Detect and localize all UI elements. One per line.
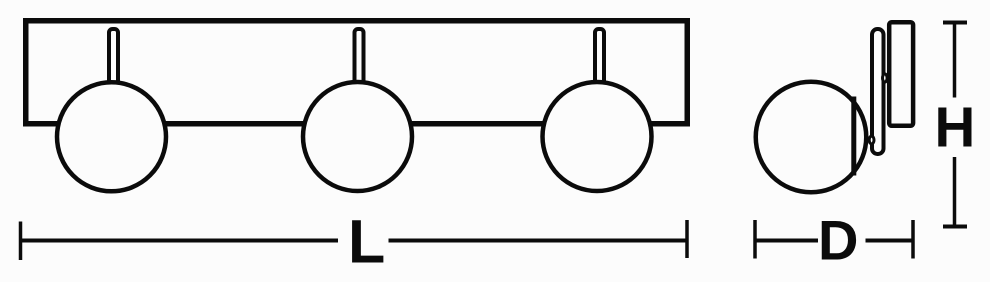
D dimension line right segment — [866, 239, 914, 243]
front view: mounting bar — [26, 21, 688, 124]
H dimension lower segment — [953, 157, 957, 227]
side view: globe flat chord — [851, 97, 856, 176]
svg-text:D: D — [818, 209, 858, 272]
front view: stem 3 — [595, 29, 604, 89]
H dimension top cap — [943, 21, 967, 25]
L dimension right tick — [685, 220, 689, 258]
H dimension upper segment — [953, 23, 957, 98]
L dimension line left segment — [21, 239, 339, 243]
H dimension bottom cap — [943, 225, 967, 229]
D dimension right tick — [911, 220, 915, 259]
front view: globe 3 — [543, 82, 652, 191]
front view: stem 1 — [109, 29, 118, 89]
side view: arm — [872, 29, 884, 154]
side view: wall plate — [889, 22, 913, 126]
D dimension left tick — [753, 220, 757, 259]
L dimension left tick — [19, 222, 23, 261]
front view: stem 2 — [355, 29, 364, 89]
front view: globe 1 — [57, 82, 166, 191]
svg-text:L: L — [348, 208, 385, 276]
side view: globe — [756, 82, 867, 193]
L dimension line right segment — [389, 239, 688, 243]
D dimension line left segment — [755, 239, 818, 243]
front view: globe 2 — [303, 82, 412, 191]
side view: bottom knob — [869, 136, 874, 144]
svg-text:H: H — [935, 96, 976, 159]
side view: top screw — [883, 74, 888, 82]
